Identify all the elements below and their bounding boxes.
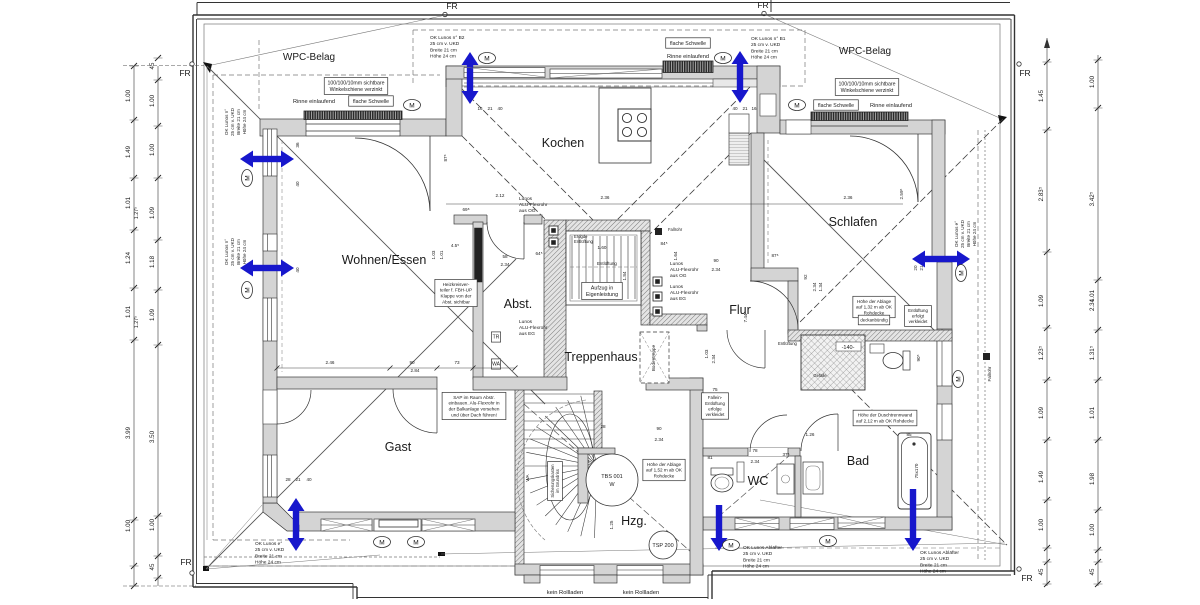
svg-text:der Balkanlage vorsehen: der Balkanlage vorsehen [449,407,500,412]
wall flur/bad vertical [788,281,798,334]
svg-text:1.27⁵: 1.27⁵ [134,207,140,219]
svg-text:75x170: 75x170 [914,463,919,478]
window kitchen 1 [464,68,545,78]
windows stair compartment bottom [540,566,594,576]
svg-text:Heizkreisver-: Heizkreisver- [443,282,470,287]
survey string line top-right [764,14,1002,119]
svg-text:40: 40 [732,106,738,111]
terrace border right double line [1014,15,1016,575]
stair shaft top wall [566,220,650,231]
svg-text:45: 45 [1038,568,1045,575]
stair shaft right wall [641,231,650,325]
svg-text:40: 40 [306,477,312,482]
svg-text:FR: FR [179,68,190,78]
svg-text:TBS 001: TBS 001 [601,474,622,480]
svg-text:W: W [609,482,615,488]
window niche kitchen right [729,114,749,133]
wall bottom right section [703,517,952,530]
svg-text:1.09: 1.09 [1038,294,1045,307]
svg-text:78: 78 [752,448,758,453]
toilet wc [711,468,733,475]
wall right lower (937-952) [937,262,952,530]
door arc wc [750,415,787,452]
svg-text:1.00: 1.00 [149,94,156,107]
dimension chain left outer [125,63,140,589]
windows bottom right section [735,518,779,530]
svg-text:M: M [720,55,725,62]
svg-text:25 cm v. UKD: 25 cm v. UKD [230,107,235,136]
svg-text:Kochen: Kochen [542,136,584,150]
svg-text:1.00: 1.00 [125,519,132,532]
svg-text:2.36: 2.36 [844,195,853,200]
kitchen M symbols [479,53,496,64]
dashed line bottom right [715,547,1000,549]
svg-text:90: 90 [713,258,719,263]
svg-text:M: M [244,287,251,292]
svg-text:Höhe 24 cm: Höhe 24 cm [743,564,769,570]
svg-text:Breite 21 cm: Breite 21 cm [255,553,282,559]
door gap wc [748,448,788,456]
dashed line bottom-left horizontal [213,539,350,541]
svg-text:aus OG: aus OG [670,273,687,279]
box heizkreisverteiler [435,279,477,306]
svg-text:1.26: 1.26 [806,432,815,437]
svg-text:21: 21 [919,265,924,271]
box fallein wc [702,393,729,419]
dashed line along top terrace [213,74,440,76]
svg-text:25 cm v. UKD: 25 cm v. UKD [960,219,965,248]
svg-text:1.25: 1.25 [609,520,614,529]
dim line row wohnen bottom [277,367,515,369]
window right 1 [937,329,952,386]
svg-text:M: M [244,175,251,180]
svg-text:M: M [379,539,384,546]
svg-text:25 cm v. UKD: 25 cm v. UKD [920,556,950,562]
dim line row kitchen [446,203,903,205]
svg-text:1.98: 1.98 [1089,472,1096,485]
svg-text:WPC-Belag: WPC-Belag [283,52,335,63]
svg-text:21: 21 [487,106,493,111]
svg-text:OK Lunos e°: OK Lunos e° [255,541,282,547]
roof diagonal wc [703,455,790,530]
roof diagonal kitchen lower left [462,136,602,276]
svg-text:Breite 21 cm: Breite 21 cm [236,239,241,265]
svg-text:Lunos: Lunos [519,319,533,325]
svg-text:45: 45 [149,563,156,570]
svg-text:1.09: 1.09 [149,206,156,219]
shower [801,335,865,390]
svg-text:M: M [955,376,962,381]
door gap abst [487,214,524,225]
svg-text:1.24: 1.24 [125,251,132,264]
svg-text:und über Dach führen!: und über Dach führen! [451,412,497,417]
svg-text:Fallrohr: Fallrohr [987,366,992,381]
svg-text:flache Schwelle: flache Schwelle [670,41,706,47]
dim datum line top-left [123,65,204,67]
svg-text:deckanbündig: deckanbündig [860,318,888,323]
svg-text:92: 92 [803,274,808,280]
svg-text:Höhe 24 cm: Höhe 24 cm [972,221,977,246]
svg-text:1.49: 1.49 [1038,470,1045,483]
door arc gast/wohnen [393,389,437,433]
svg-text:3.50: 3.50 [149,430,156,443]
svg-text:OK Lunos Abläfter: OK Lunos Abläfter [743,545,782,551]
svg-text:Sicherungskasten: Sicherungskasten [550,464,555,498]
M symbols bottom [374,537,391,548]
divider wall abst bottom [473,377,567,390]
box rache schwelle schlafen [814,100,859,110]
svg-text:Abst.: Abst. [504,297,533,311]
survey point top-left [203,62,212,73]
sight fan bottom-right [760,500,1007,545]
black wall segment abst left [475,228,483,282]
svg-text:Treppenhaus: Treppenhaus [564,350,637,364]
svg-text:-140-: -140- [842,345,855,351]
svg-text:1.34: 1.34 [818,282,823,291]
svg-text:M: M [794,102,799,109]
svg-text:21: 21 [742,106,748,111]
terrace inner edge rectangle [204,24,1000,566]
washbasin bad upper right [870,344,884,353]
roof diagonal living [207,66,545,404]
svg-text:auf 2,12 m ab OK Rohdecke: auf 2,12 m ab OK Rohdecke [856,419,914,424]
svg-text:Höhe der Duschtrennwand: Höhe der Duschtrennwand [858,413,913,418]
chamfer corner bottom-left [263,503,299,531]
svg-text:Wohnen/Essen: Wohnen/Essen [342,253,427,267]
svg-text:20: 20 [913,265,918,271]
svg-text:aus OG: aus OG [519,208,536,214]
box rache schwelle kitchen [666,38,711,48]
window hatch band living top [304,111,402,120]
wall living top (260-446) [260,119,306,136]
vent boxes shaft left [549,226,558,235]
roof diagonal kitchen left V [462,89,605,232]
svg-text:3.42⁵: 3.42⁵ [1089,191,1096,206]
svg-text:kein Rollladen: kein Rollladen [547,590,583,596]
svg-text:auf 1,52 m ab OK: auf 1,52 m ab OK [646,468,683,473]
stair compartment bottom wall [515,564,703,575]
top boundary tick left [196,3,198,15]
heizkoerper symbols wc wall [737,462,744,482]
svg-text:2.83⁵: 2.83⁵ [1038,186,1045,201]
svg-text:Breite 21 cm: Breite 21 cm [430,47,457,53]
svg-text:Breite 21 cm: Breite 21 cm [743,557,770,563]
boiler circle [586,454,638,506]
box bache schwelle left [349,96,394,106]
svg-text:Rinne einlaufend: Rinne einlaufend [667,54,709,60]
svg-text:FR: FR [1021,573,1032,583]
svg-text:40: 40 [295,267,300,273]
svg-text:M: M [825,538,830,545]
svg-text:2.12: 2.12 [496,193,505,198]
svg-text:im Grundriss: im Grundriss [555,469,560,493]
survey point top-right [998,115,1007,124]
svg-text:verkleidet: verkleidet [706,412,726,417]
svg-text:Höhe der Ablage: Höhe der Ablage [647,462,682,467]
svg-text:4.5⁵: 4.5⁵ [451,243,459,248]
svg-text:Gast: Gast [385,440,412,454]
svg-text:2.34: 2.34 [711,354,716,363]
stairs lower winder [517,394,597,540]
svg-text:64⁵: 64⁵ [535,251,542,256]
svg-text:16: 16 [477,106,483,111]
wall wc/bad divider [795,456,801,517]
box winkelschiene left [324,78,387,95]
roof diagonal stairs area [524,404,700,560]
bathtub [898,433,931,509]
svg-text:Hzg.: Hzg. [621,514,647,528]
survey point bottom-left [203,566,209,571]
svg-text:FR: FR [757,0,768,10]
blue arrow bad down [905,489,922,551]
TSP circle [649,531,677,559]
blue arrow left wall lower [240,260,294,277]
svg-text:aus EG: aus EG [670,296,686,302]
svg-text:100/100/10mm sichtbare: 100/100/10mm sichtbare [838,82,895,88]
svg-text:1.09: 1.09 [1038,406,1045,419]
svg-text:36: 36 [295,142,300,148]
svg-text:1.03: 1.03 [704,349,709,358]
svg-text:28: 28 [285,477,291,482]
toilet bad [903,351,910,370]
roof diagonal schlafen from corner [800,119,1003,322]
door arc schlafen/flur [750,281,798,329]
svg-text:81: 81 [707,455,713,460]
wall bad top [788,330,952,341]
wall schlafen top (780-945) [780,120,945,134]
svg-text:1.01: 1.01 [125,305,132,318]
dashed line bottom mid [213,565,700,567]
roof diagonal kitchen lower right [602,133,751,282]
svg-text:1.60: 1.60 [598,245,607,250]
M symbol schlafen right [956,265,967,282]
svg-text:2.34: 2.34 [501,262,510,267]
svg-text:M: M [409,102,414,109]
svg-text:2.34: 2.34 [712,267,721,272]
svg-text:85: 85 [906,432,912,437]
divider wall wohnen/gast [277,377,437,389]
svg-text:Entlüftung: Entlüftung [705,401,725,406]
top boundary tick mid [770,0,772,12]
door arc bad [801,414,838,451]
svg-text:1.00: 1.00 [1089,523,1096,536]
window kitchen 2 [550,69,662,78]
svg-text:WPC-Belag: WPC-Belag [839,46,891,57]
wall abst left [473,222,483,379]
svg-text:90: 90 [656,426,662,431]
svg-text:28: 28 [600,424,606,429]
svg-text:Gefälle: Gefälle [813,373,827,378]
dashed line right vertical inner [977,130,979,560]
WA box [491,359,500,369]
svg-text:OK Lunos n° B2: OK Lunos n° B2 [430,35,465,41]
svg-text:Höhe 24 cm: Höhe 24 cm [255,560,281,566]
svg-text:25 cm v. UKD: 25 cm v. UKD [751,42,781,48]
svg-text:verkleidet: verkleidet [909,319,929,324]
wall schlafen left [751,133,764,281]
svg-text:Abst. sichtbar: Abst. sichtbar [442,299,470,304]
svg-text:25 cm v. UKD: 25 cm v. UKD [230,237,235,266]
svg-text:2.36: 2.36 [601,195,610,200]
blue arrow left wall upper [240,151,294,168]
roof diagonal schlafen main [764,160,945,341]
sight triangles gast windows [321,519,372,531]
dashed winkelschiene line left [258,40,260,110]
svg-text:25 cm v. UKD: 25 cm v. UKD [430,41,460,47]
top site boundary line [197,2,1010,4]
svg-text:1.00: 1.00 [1038,518,1045,531]
svg-text:Höhe 24 cm: Höhe 24 cm [920,569,946,575]
door arc flur [727,330,765,368]
svg-text:Eigenleistung: Eigenleistung [586,292,618,298]
svg-text:Höhe 24 cm: Höhe 24 cm [242,239,247,264]
svg-text:87⁸: 87⁸ [443,154,448,161]
svg-text:ALU-Flexrohr: ALU-Flexrohr [670,290,699,296]
stove [618,109,651,141]
box hoehe ablage stairs [643,459,685,480]
lift shaft inner rect [566,231,641,305]
wall flur spur [650,314,707,325]
svg-text:kein Rollladen: kein Rollladen [623,590,659,596]
svg-text:1.00: 1.00 [125,89,132,102]
svg-text:FR: FR [1019,68,1030,78]
divider wall right of stairs opening [646,378,703,390]
svg-text:flache Schwelle: flache Schwelle [353,99,389,105]
svg-text:Schlafen: Schlafen [829,215,878,229]
stair shaft left wall [544,220,566,388]
wall wc top [703,448,800,456]
wall gast bottom [295,512,515,531]
M symbol schlafen top [789,100,806,111]
svg-text:M: M [484,55,489,62]
svg-text:Klappe von der: Klappe von der [441,294,472,299]
svg-text:90⁵: 90⁵ [916,354,921,361]
wall abst top [454,215,542,224]
svg-text:Breite 21 cm: Breite 21 cm [236,109,241,135]
sight triangles bottom right windows [735,518,779,529]
svg-text:Breite 21 cm: Breite 21 cm [751,48,778,54]
terrace border bottom-left double line [193,586,357,588]
svg-text:Winkelschiene verzinkt: Winkelschiene verzinkt [330,87,383,93]
svg-text:ALU-Flexrohr: ALU-Flexrohr [519,325,548,331]
svg-text:Entlüftung: Entlüftung [908,308,928,313]
svg-text:Höhe 24 cm: Höhe 24 cm [242,109,247,134]
dashed line schlafen left offset [767,140,769,266]
svg-text:Breite 21 cm: Breite 21 cm [966,221,971,247]
svg-text:WC: WC [748,474,769,488]
svg-text:40: 40 [295,181,300,187]
svg-text:Rohdecke: Rohdecke [654,473,675,478]
svg-text:37⁵: 37⁵ [782,452,789,457]
svg-text:einbauen. Alu-Flexrohr in: einbauen. Alu-Flexrohr in [448,401,500,406]
svg-text:1.27⁵: 1.27⁵ [134,316,140,328]
svg-text:Fallein-: Fallein- [708,395,723,400]
wall kitchen right corner (757-780) [757,66,780,133]
svg-text:FR: FR [180,557,191,567]
svg-text:1.00: 1.00 [1089,75,1096,88]
svg-text:7.44: 7.44 [743,313,748,322]
svg-text:OK Lunos n°: OK Lunos n° [224,109,229,135]
svg-text:teiler f. FBH-UP: teiler f. FBH-UP [440,288,472,293]
svg-text:ALU-Flexrohr: ALU-Flexrohr [670,267,699,273]
svg-text:aus EG: aus EG [519,331,535,337]
door gap schlafen top [786,120,811,134]
svg-text:1.00: 1.00 [149,518,156,531]
door arc left wall gast [277,390,311,424]
door arc abst [487,222,524,259]
svg-text:1.84: 1.84 [622,271,627,280]
svg-text:90: 90 [409,360,415,365]
svg-text:1.23⁵: 1.23⁵ [1038,345,1045,360]
svg-text:Rinne einlaufend: Rinne einlaufend [870,103,912,109]
door gap left wall [263,390,277,424]
sight fan bottom-left [206,555,380,569]
svg-text:erfolge: erfolge [708,406,722,411]
svg-text:1.01: 1.01 [439,250,444,259]
svg-text:Entlüftung: Entlüftung [574,239,594,244]
window hatch band schlafen [811,112,908,121]
svg-text:75: 75 [712,387,718,392]
terrace border bottom-right double line [712,570,1015,572]
svg-text:TSP 200: TSP 200 [652,543,673,549]
svg-text:ALU-Flexrohr: ALU-Flexrohr [519,202,548,208]
dashed kitchen schiene line [412,30,414,86]
svg-text:Winkelschiene verzinkt: Winkelschiene verzinkt [841,88,894,94]
stair compartment right wall [690,378,703,575]
svg-text:2.59⁵: 2.59⁵ [899,188,904,199]
svg-text:Höhe 24 cm: Höhe 24 cm [751,55,777,61]
wall stub below left [524,575,540,583]
svg-text:1.09: 1.09 [149,308,156,321]
wall kitchen left (x446-462) [446,66,462,136]
svg-text:Lunos: Lunos [519,196,533,202]
box entlueftung schlafen right [905,306,932,327]
svg-text:2.84: 2.84 [411,368,420,373]
svg-text:Rinne einlaufend: Rinne einlaufend [293,99,335,105]
windows gast bottom [321,519,372,531]
blue arrow schlafen right [912,251,970,268]
svg-text:OK Lunos n°: OK Lunos n° [224,239,229,265]
door arc schlafen top [917,134,919,202]
survey string line top-left [207,15,446,66]
wall living/gast left [263,136,277,503]
terrace border top double line [193,14,1015,16]
kitchen sill line [464,82,713,84]
stair compartment left wall [515,381,524,575]
stair flight upper [570,236,637,299]
svg-text:M: M [728,542,733,549]
svg-text:Lunos: Lunos [670,284,684,290]
M symbols left wall [242,170,253,187]
svg-text:WA: WA [492,362,501,368]
window hatch band kitchen [663,61,713,73]
dashed terrace line left vertical [212,75,214,540]
dimension chain left inner [149,55,163,586]
M symbol left top [404,100,421,111]
svg-text:OK Lunos Abläfter: OK Lunos Abläfter [920,550,959,556]
roof diagonal gast [206,259,516,569]
box hoehe ablage bad [853,296,895,317]
dim datum line bottom-left [123,585,196,587]
svg-text:73: 73 [454,360,460,365]
svg-text:Rohdecke: Rohdecke [864,310,885,315]
svg-text:58: 58 [502,254,508,259]
svg-text:2.34: 2.34 [812,282,817,291]
svg-text:84⁵: 84⁵ [660,241,667,246]
svg-text:2.34: 2.34 [655,437,664,442]
svg-text:1.31⁵: 1.31⁵ [1089,345,1096,360]
svg-text:1.49: 1.49 [125,145,132,158]
